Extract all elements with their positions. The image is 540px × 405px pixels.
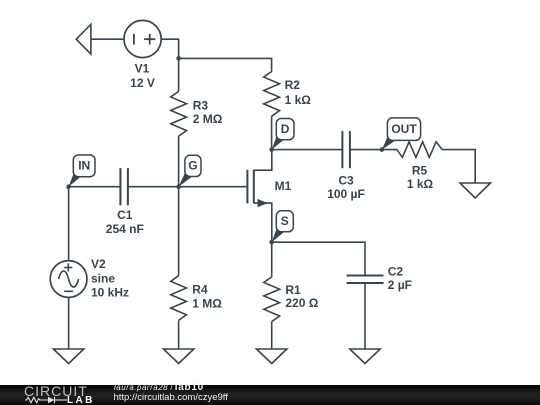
- svg-text:1 kΩ: 1 kΩ: [285, 93, 312, 107]
- svg-text:G: G: [188, 159, 197, 173]
- wire: [91, 38, 124, 40]
- ground GND1 (V1 left terminal, pointing left): [76, 24, 91, 54]
- ground GND6 (under R1): [257, 349, 287, 364]
- svg-text:R1: R1: [285, 283, 301, 297]
- flag OUT: [382, 134, 396, 149]
- svg-text:R2: R2: [285, 78, 301, 92]
- node IN junction: [66, 184, 71, 189]
- svg-text:C2: C2: [388, 265, 404, 279]
- wire: [272, 149, 342, 151]
- node G junction: [176, 184, 181, 189]
- node OUT junction: [380, 147, 385, 152]
- transistor M1 (NMOS): [179, 186, 248, 188]
- svg-text:V1: V1: [135, 62, 150, 76]
- svg-text:12 V: 12 V: [130, 76, 155, 90]
- svg-text:2 µF: 2 µF: [388, 278, 412, 292]
- svg-text:D: D: [281, 122, 290, 136]
- wire: [68, 297, 70, 349]
- ground GND3 (under V2): [53, 349, 83, 364]
- resistor R5: [382, 142, 475, 183]
- svg-text:IN: IN: [78, 159, 90, 173]
- flag S: [272, 226, 284, 242]
- svg-text:1 kΩ: 1 kΩ: [407, 177, 434, 191]
- resistor R3: [178, 58, 180, 91]
- wire: [272, 242, 365, 275]
- capacitor C3: [341, 131, 343, 168]
- svg-text:V2: V2: [91, 257, 106, 271]
- flag D: [272, 134, 284, 150]
- svg-text:R4: R4: [192, 282, 208, 296]
- footer bar: [0, 385, 540, 405]
- svg-text:1 MΩ: 1 MΩ: [192, 297, 222, 311]
- svg-text:C1: C1: [117, 208, 133, 222]
- svg-text:220 Ω: 220 Ω: [285, 296, 318, 310]
- voltage source V2: [50, 261, 87, 298]
- wire: [161, 39, 178, 58]
- svg-text:2 MΩ: 2 MΩ: [193, 112, 223, 126]
- svg-text:sine: sine: [91, 271, 115, 285]
- CircuitLab logo: [24, 384, 88, 398]
- svg-text:R3: R3: [193, 98, 209, 112]
- node S junction: [269, 240, 274, 245]
- resistor R2: [264, 72, 280, 117]
- svg-text:M1: M1: [275, 179, 292, 193]
- svg-text:R5: R5: [412, 164, 428, 178]
- flag G: [179, 171, 193, 187]
- resistor R1: [271, 242, 273, 277]
- flag IN: [69, 171, 81, 187]
- voltage source V1: [124, 20, 161, 57]
- svg-text:C3: C3: [338, 174, 354, 188]
- wire: [350, 149, 382, 151]
- svg-text:10 kHz: 10 kHz: [91, 286, 129, 300]
- wire: [69, 186, 121, 188]
- ground GND4 (under R4): [163, 349, 193, 364]
- resistor R4: [178, 187, 180, 276]
- wire: [68, 187, 70, 261]
- svg-text:100 µF: 100 µF: [327, 187, 365, 201]
- svg-text:254 nF: 254 nF: [106, 222, 144, 236]
- wire: [271, 116, 273, 149]
- capacitor C2: [347, 275, 384, 277]
- ground GND2 (right, under R5): [460, 183, 490, 198]
- wire: [179, 58, 272, 71]
- node D junction: [269, 147, 274, 152]
- capacitor C1: [119, 168, 121, 205]
- wire: [128, 186, 179, 188]
- wire: [364, 283, 366, 349]
- svg-text:OUT: OUT: [391, 122, 417, 136]
- svg-text:S: S: [281, 214, 289, 228]
- node junction at V1 output: [176, 56, 181, 61]
- ground GND5 (under C2): [350, 349, 380, 364]
